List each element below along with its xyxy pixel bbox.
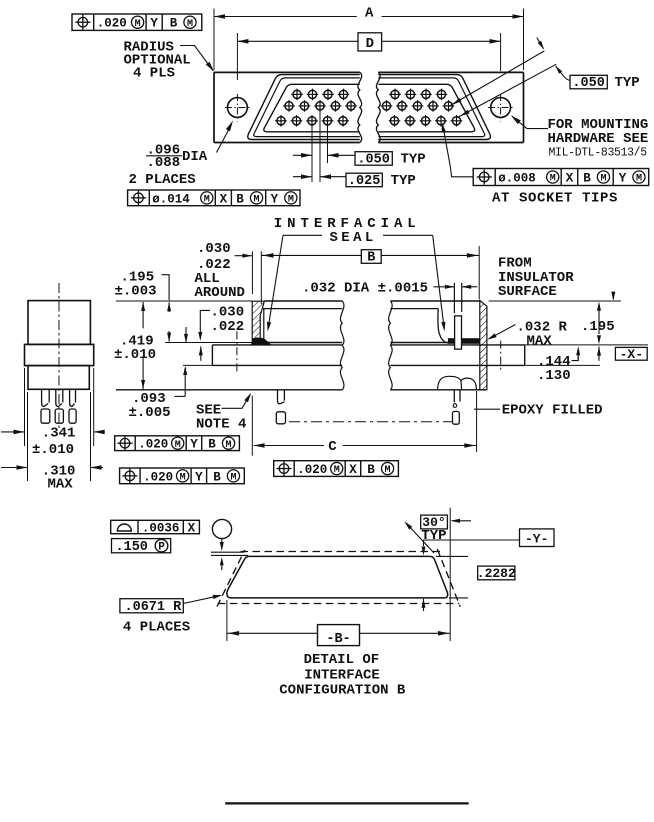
svg-text:.020: .020 — [97, 17, 127, 31]
svg-text:B: B — [213, 470, 221, 484]
svg-text:X: X — [566, 171, 574, 185]
svg-text:Y: Y — [150, 17, 158, 31]
svg-text:.030: .030 — [197, 241, 231, 257]
svg-text:X: X — [220, 192, 228, 206]
svg-text:C: C — [328, 439, 337, 455]
svg-text:4 PLACES: 4 PLACES — [123, 620, 190, 636]
svg-text:2 PLACES: 2 PLACES — [129, 172, 196, 188]
svg-text:M: M — [254, 194, 260, 205]
svg-text:-X-: -X- — [620, 347, 643, 362]
svg-text:M: M — [230, 472, 236, 483]
svg-text:X: X — [349, 463, 357, 477]
svg-text:AT SOCKET TIPS: AT SOCKET TIPS — [492, 191, 618, 207]
svg-text:.341: .341 — [42, 426, 76, 442]
svg-text:B: B — [236, 192, 244, 206]
svg-text:M: M — [204, 194, 210, 205]
svg-text:M: M — [600, 174, 606, 185]
svg-text:B: B — [367, 463, 375, 477]
svg-text:.025: .025 — [348, 174, 380, 189]
svg-text:M: M — [288, 194, 294, 205]
svg-text:M: M — [187, 19, 193, 30]
svg-text:P: P — [158, 542, 165, 554]
svg-text:.020: .020 — [297, 463, 327, 477]
svg-text:TYP: TYP — [391, 173, 416, 189]
svg-text:M: M — [636, 174, 642, 185]
svg-text:Y: Y — [195, 470, 203, 484]
svg-text:ø.008: ø.008 — [498, 171, 536, 185]
svg-text:B: B — [367, 251, 375, 266]
svg-text:HARDWARE SEE: HARDWARE SEE — [548, 131, 649, 147]
svg-text:ø.014: ø.014 — [152, 192, 190, 206]
svg-text:D: D — [366, 36, 374, 52]
svg-text:±.003: ±.003 — [115, 283, 157, 299]
svg-text:.150: .150 — [116, 540, 148, 555]
svg-text:.0036: .0036 — [142, 521, 180, 535]
svg-text:M: M — [385, 465, 391, 476]
svg-text:AROUND: AROUND — [195, 285, 245, 301]
svg-text:X: X — [188, 521, 196, 535]
svg-text:MIL-DTL-83513/5: MIL-DTL-83513/5 — [549, 146, 648, 159]
svg-text:-B-: -B- — [326, 632, 350, 647]
svg-text:±.010: ±.010 — [32, 442, 74, 458]
svg-text:A: A — [365, 5, 374, 21]
svg-text:.130: .130 — [537, 368, 571, 384]
svg-text:.050: .050 — [572, 76, 604, 91]
svg-text:.2282: .2282 — [477, 566, 516, 581]
svg-text:Y: Y — [190, 438, 198, 452]
svg-text:.020: .020 — [143, 470, 173, 484]
svg-text:M: M — [135, 19, 141, 30]
svg-text:B: B — [583, 171, 591, 185]
svg-text:±.005: ±.005 — [129, 405, 171, 421]
svg-text:M: M — [175, 440, 181, 451]
svg-text:±.010: ±.010 — [114, 347, 156, 363]
svg-text:TYP: TYP — [615, 75, 640, 91]
svg-text:INTERFACE: INTERFACE — [304, 667, 380, 683]
svg-text:.022: .022 — [211, 319, 245, 335]
svg-text:M: M — [334, 465, 340, 476]
svg-text:.020: .020 — [138, 438, 168, 452]
svg-text:B: B — [170, 17, 178, 31]
svg-text:.088: .088 — [147, 155, 181, 171]
svg-text:M: M — [180, 472, 186, 483]
svg-text:DETAIL OF: DETAIL OF — [304, 652, 380, 668]
svg-text:CONFIGURATION B: CONFIGURATION B — [279, 683, 406, 699]
svg-text:SEAL: SEAL — [330, 230, 377, 246]
svg-text:TYP: TYP — [421, 528, 446, 544]
svg-text:4 PLS: 4 PLS — [133, 65, 175, 81]
svg-text:MAX: MAX — [48, 476, 74, 492]
svg-text:MAX: MAX — [527, 334, 553, 350]
svg-text:Y: Y — [271, 192, 279, 206]
svg-text:B: B — [208, 438, 216, 452]
svg-text:M: M — [226, 440, 232, 451]
svg-text:NOTE 4: NOTE 4 — [196, 416, 246, 432]
svg-text:.030: .030 — [211, 305, 245, 321]
svg-text:.0671 R: .0671 R — [125, 600, 183, 615]
svg-text:EPOXY FILLED: EPOXY FILLED — [502, 402, 603, 418]
svg-text:DIA: DIA — [182, 149, 208, 165]
svg-text:.032 DIA ±.0015: .032 DIA ±.0015 — [302, 280, 428, 296]
svg-text:.195: .195 — [581, 319, 615, 335]
svg-text:.050: .050 — [357, 152, 389, 167]
svg-text:Y: Y — [619, 171, 627, 185]
svg-text:TYP: TYP — [401, 152, 426, 168]
svg-text:.022: .022 — [197, 257, 231, 273]
svg-text:SURFACE: SURFACE — [498, 284, 557, 300]
svg-text:M: M — [550, 174, 556, 185]
svg-text:-Y-: -Y- — [525, 531, 548, 546]
